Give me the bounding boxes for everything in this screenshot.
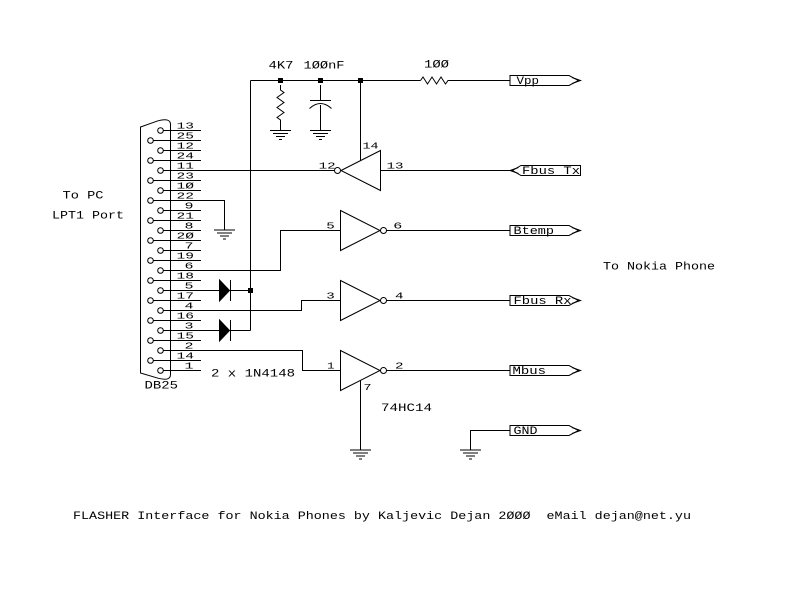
wire D2 cathode to vertical net xyxy=(231,330,251,332)
wire U1 pin7 to ground xyxy=(360,380,362,450)
DB25 pin 1 xyxy=(158,361,201,374)
port FbusRx xyxy=(510,296,581,308)
ground GND port xyxy=(460,450,481,459)
svg-text:4: 4 xyxy=(395,291,404,302)
DB25 pin 5 xyxy=(158,281,201,294)
wire DB25 pin2 to U1A input xyxy=(201,351,341,371)
wire GND port to ground xyxy=(471,431,511,451)
DB25 pin 18 xyxy=(148,271,201,284)
junction at D1 cathode xyxy=(248,288,253,293)
diode D2 1N4148 (pin3) xyxy=(220,320,231,341)
wire Vpp net left vertical xyxy=(250,81,252,331)
svg-text:1: 1 xyxy=(327,361,335,372)
DB25 pin 16 xyxy=(148,311,201,324)
port GND xyxy=(510,426,581,438)
svg-text:LPT1 Port: LPT1 Port xyxy=(52,211,124,223)
port Fbus Tx xyxy=(510,166,581,179)
svg-text:DB25: DB25 xyxy=(145,381,179,393)
DB25 pin 4 xyxy=(158,301,201,314)
wire DB25 pin11 to U1F output xyxy=(201,170,335,172)
DB25 pin 19 xyxy=(148,251,201,264)
inverter U1A pins 1,2 xyxy=(327,351,404,391)
connector J1 DB25 body xyxy=(141,120,171,380)
inverter U1C pins 5,6 xyxy=(326,211,402,251)
wire R2 to Vpp port xyxy=(450,80,511,82)
svg-text:FLASHER Interface for Nokia Ph: FLASHER Interface for Nokia Phones by Ka… xyxy=(73,511,691,523)
svg-text:Mbus: Mbus xyxy=(513,366,547,378)
DB25 pin 6 xyxy=(158,261,201,274)
DB25 pin 10 xyxy=(158,181,201,194)
resistor R1 4K7 xyxy=(269,61,294,131)
svg-text:14: 14 xyxy=(363,141,379,152)
DB25 pin 22 xyxy=(148,191,201,204)
ground under C1 xyxy=(310,131,331,140)
DB25 pin 3 xyxy=(158,321,201,334)
DB25 pin 13 xyxy=(158,121,201,134)
inverter U1B pins 3,4 xyxy=(326,281,404,321)
DB25 pin 24 xyxy=(148,151,201,164)
svg-text:Vpp: Vpp xyxy=(517,76,540,88)
junction at R1 top xyxy=(278,78,283,83)
wire DB25 pin3 to D2 anode xyxy=(201,330,220,332)
DB25 pin 17 xyxy=(148,291,201,304)
inverter U1F pins 12,13 xyxy=(319,151,404,191)
DB25 pin 9 xyxy=(158,201,201,214)
junction at U1 pin14 xyxy=(358,78,363,83)
svg-text:2 x 1N4148: 2 x 1N4148 xyxy=(211,369,295,381)
svg-text:Fbus Tx: Fbus Tx xyxy=(522,166,580,178)
DB25 pin 2 xyxy=(158,341,201,354)
resistor R2 100 xyxy=(421,60,450,85)
svg-text:To PC: To PC xyxy=(63,191,104,203)
wire D1 cathode to junction xyxy=(231,290,251,292)
wire DB25 pin22 to ground xyxy=(201,201,225,230)
svg-text:1: 1 xyxy=(185,361,194,372)
wire Vpp net top horizontal xyxy=(251,80,421,82)
svg-text:6: 6 xyxy=(393,221,402,232)
svg-text:7: 7 xyxy=(364,382,372,393)
wire DB25 pin5 to D1 anode xyxy=(201,290,220,292)
svg-text:Btemp: Btemp xyxy=(514,226,555,238)
svg-text:1ØØnF: 1ØØnF xyxy=(304,61,345,73)
DB25 pin 8 xyxy=(158,221,201,234)
wire U1F input to Fbus Tx port xyxy=(381,170,513,172)
DB25 pin 25 xyxy=(148,131,201,144)
port Mbus xyxy=(510,366,581,378)
svg-text:74HC14: 74HC14 xyxy=(381,403,433,415)
junction at C1 top xyxy=(318,78,323,83)
DB25 pin 21 xyxy=(148,211,201,224)
DB25 pin 15 xyxy=(148,331,201,344)
DB25 pin 23 xyxy=(148,171,201,184)
wire DB25 pin6 to U1C input xyxy=(201,231,341,271)
svg-text:1ØØ: 1ØØ xyxy=(424,60,449,72)
svg-text:GND: GND xyxy=(514,426,538,438)
svg-text:To Nokia Phone: To Nokia Phone xyxy=(603,262,715,274)
svg-text:Fbus Rx: Fbus Rx xyxy=(514,296,572,308)
wire U1 pin14 power drop xyxy=(360,81,362,161)
diode D1 1N4148 (pin5) xyxy=(220,280,231,301)
wire U1B output to Fbus Rx port xyxy=(387,300,511,302)
wire U1C output to Btemp port xyxy=(387,230,511,232)
ground pin22 xyxy=(214,230,235,239)
svg-text:4K7: 4K7 xyxy=(269,61,294,73)
ground under R1 xyxy=(270,131,291,140)
DB25 pin 7 xyxy=(158,241,201,254)
svg-text:2: 2 xyxy=(395,361,404,372)
svg-text:13: 13 xyxy=(387,161,404,172)
DB25 pin 20 xyxy=(148,231,201,244)
DB25 pin 11 xyxy=(158,161,201,174)
wire DB25 pin4 to U1B input xyxy=(201,301,341,311)
svg-text:3: 3 xyxy=(326,291,335,302)
port Btemp xyxy=(510,226,581,238)
svg-text:5: 5 xyxy=(326,221,335,232)
DB25 pin 14 xyxy=(148,351,201,364)
ground U1 pin7 xyxy=(350,450,371,459)
wire U1A output to Mbus port xyxy=(387,370,511,372)
capacitor C1 100nF xyxy=(304,61,345,131)
port Vpp xyxy=(510,76,581,88)
DB25 pin 12 xyxy=(158,141,201,154)
svg-text:12: 12 xyxy=(319,161,336,172)
